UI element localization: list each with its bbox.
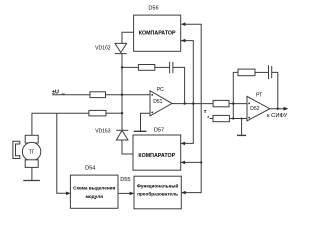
ground below D52 [237,134,246,136]
svg-text:Схема выделения: Схема выделения [73,186,115,191]
diode VD162 [115,43,127,52]
resistor R input lower [89,110,106,116]
wire Tz input row [210,118,213,120]
arrowhead into D56 [181,22,185,26]
resistor R Tz [213,115,229,121]
node lower line junction [121,112,123,114]
svg-text:D54: D54 [85,166,95,172]
wire to diode column [106,112,122,114]
capacitor C feedback D51 [169,62,171,74]
wire tacho line [32,112,89,114]
arrowhead into D56 lower [181,39,185,43]
arrowhead into D54 [66,192,70,196]
node D52 ground tap [241,118,243,120]
arrowhead output to SIFU [284,107,289,111]
arrowhead into D57 lower [181,161,185,165]
op-amp U2 D52 [247,96,270,121]
resistor R input upper [90,92,106,98]
TG stator bracket [13,141,20,158]
wire D56 bottom-right to opamp output [181,41,193,144]
svg-text:Т: Т [204,109,207,115]
TG body terminal bar [23,180,40,182]
resistor R feedback D51 [138,65,154,71]
node output-feedback junction [183,102,185,104]
wire D52 feedback branch [233,72,238,118]
svg-text:ТГ: ТГ [29,150,35,156]
svg-text:VD163: VD163 [95,128,111,134]
svg-text:VD1б2: VD1б2 [95,45,111,51]
functional converter D55 box [134,176,181,209]
op-amp U1 D51 [150,91,172,116]
node summing D51 [121,94,123,96]
wire Tz to D52 input [229,118,247,120]
wire VD163 to D57 [122,140,133,154]
wire D56 top-right input [182,24,201,192]
tachogenerator TG [31,113,33,135]
wire cap to D52 output [272,72,278,108]
input marker D52 upper [248,102,250,104]
capacitor C feedback D52 [268,65,270,79]
ground below D51 [134,130,147,132]
wire to summing node [106,94,151,96]
wire D56 left output [122,32,134,43]
comparator D56 box [134,15,181,51]
input marker D51 lower [151,112,153,114]
wire D51 plus input to ground [141,113,151,131]
wire diode column [121,54,123,131]
resistor R feedback D52 [238,69,255,76]
arrowhead into D55 right [181,191,185,195]
node D52 output-feedback junction [277,108,279,110]
svg-text:КОМПАРАТОР: КОМПАРАТОР [139,30,176,36]
node output-comparator junction [192,102,194,104]
node summing D52 [232,102,234,104]
wire input U line [52,94,90,96]
svg-text:D56: D56 [148,6,158,12]
svg-text:D57: D57 [154,128,164,134]
wire feedback R1C1 row [122,66,138,68]
svg-text:D52: D52 [250,106,259,112]
svg-text:к СИФУ: к СИФУ [267,113,288,119]
wire D51 output line [172,103,213,105]
wire D52 output [270,108,287,110]
node branch to D57 [200,161,202,163]
svg-text:КОМПАРАТОР: КОМПАРАТОР [138,153,175,159]
module extractor D54 box [70,175,118,208]
comparator D57 box [133,135,181,170]
wire D54 to D55 [118,192,133,194]
node Tz line junction [232,117,234,119]
wire [155,66,170,68]
wire cap to output [173,67,185,103]
resistor R output to D52 [213,100,229,106]
wire to D52 input [229,103,247,105]
wire D52 plus to ground [241,119,243,136]
svg-text:РТ: РТ [256,92,262,98]
svg-text:РС: РС [157,87,164,93]
svg-text:з: з [207,115,209,119]
wire tacho branch to D54 [57,113,70,193]
input marker D52 lower [248,117,250,119]
svg-text:преобразователь: преобразователь [137,190,178,196]
svg-text:Функциональный: Функциональный [137,183,179,189]
input marker D51 upper [151,94,153,96]
arrowhead into D55 left [130,192,134,196]
wire [255,71,269,73]
svg-text:D51: D51 [153,99,162,105]
arrowhead into D57 upper [181,142,185,146]
diode VD163 [116,130,128,140]
svg-text:D55: D55 [120,177,130,183]
svg-text:±U: ±U [52,89,59,95]
svg-text:модуля: модуля [85,194,103,199]
wire D57 lower-right branch [181,161,201,163]
svg-text:зс: зс [62,92,66,96]
node diode-feedback junction [121,66,123,68]
